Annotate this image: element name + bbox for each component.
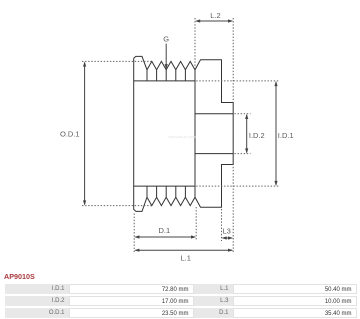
svg-text:O.D.1: O.D.1 — [60, 129, 80, 138]
spec table row 2 — [0, 296, 360, 306]
ext O.D.1 bottom — [82, 205, 152, 207]
ext L.3 left — [221, 209, 223, 241]
groove root line top — [134, 80, 195, 82]
ext D.1 right — [195, 207, 197, 241]
ext hub right face long — [232, 18, 234, 253]
ext I.D.2 bottom — [234, 153, 250, 155]
svg-text:I.D.2: I.D.2 — [249, 131, 265, 140]
svg-text:L.2: L.2 — [210, 11, 220, 20]
dim I.D.2 — [246, 115, 248, 152]
groove root line bottom — [134, 185, 195, 187]
svg-text:L3: L3 — [223, 227, 231, 236]
leader G arrow — [165, 44, 167, 68]
svg-text:G: G — [163, 35, 169, 44]
bottom valley stubs — [147, 186, 185, 197]
top valley stubs — [147, 70, 185, 81]
hub bore silhouette lines — [195, 114, 233, 154]
ext O.D.1 top — [82, 60, 152, 62]
svg-text:I.D.1: I.D.1 — [278, 131, 294, 140]
dim L.3 — [223, 237, 232, 239]
spec table row 3 — [0, 308, 360, 318]
ext left edge bottom — [133, 214, 135, 254]
ext L.2 left — [194, 18, 196, 67]
svg-text:D.1: D.1 — [159, 226, 171, 235]
svg-text:www.as-pl.com: www.as-pl.com — [169, 134, 197, 139]
dim L.2 — [196, 20, 232, 22]
ext I.D.1 top — [196, 80, 279, 82]
ext I.D.1 bottom — [196, 185, 279, 187]
extension dotted lines — [82, 18, 280, 253]
dim D.1 — [135, 236, 195, 238]
svg-text:L.1: L.1 — [181, 254, 191, 263]
dim O.D.1 — [84, 63, 86, 205]
dim I.D.1 — [275, 82, 277, 185]
dim L.1 — [135, 249, 232, 251]
ext I.D.2 top — [234, 113, 250, 115]
pulley outline — [134, 56, 234, 211]
ring right edge — [194, 70, 196, 197]
part code — [4, 272, 35, 281]
spec table row 1 — [0, 284, 360, 294]
